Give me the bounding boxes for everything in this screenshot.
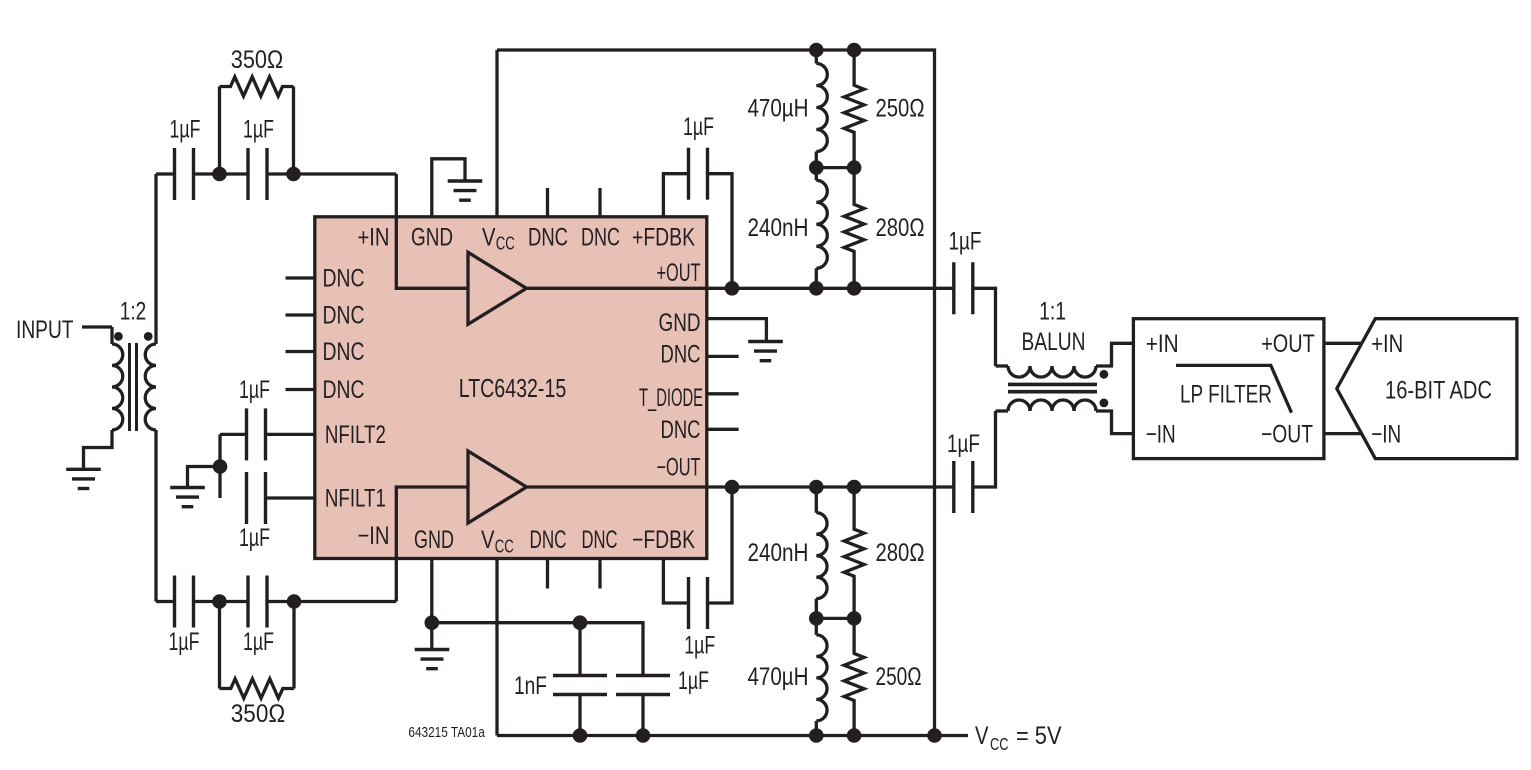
transformer T2 core <box>1008 384 1097 391</box>
pin DNC bottom2 label <box>582 526 618 554</box>
wire +IN internal <box>396 174 468 288</box>
node E junction <box>213 459 228 474</box>
node L3 junction on -OUT <box>809 480 824 495</box>
wire node M down <box>578 623 581 676</box>
wire node C to C4 <box>220 600 249 603</box>
node C12 junction on rail <box>636 728 651 743</box>
wire -FDBK pin <box>663 559 688 604</box>
capacitor C6 label <box>239 524 270 552</box>
block LP FILTER +IN label <box>1146 330 1179 358</box>
pin stub DNC left4 <box>286 388 315 391</box>
capacitor C3 label <box>169 628 200 656</box>
label 1uF at DNC left4 <box>239 376 270 404</box>
node J junction <box>809 611 824 626</box>
wire node E to ground <box>188 467 221 487</box>
svg-text:GND: GND <box>411 224 453 252</box>
svg-text:−OUT: −OUT <box>1261 420 1313 448</box>
pin GND bottom label <box>414 526 454 554</box>
ground at NFILT <box>170 488 205 507</box>
node R4 junction on +OUT <box>847 281 862 296</box>
inductor L1 label 470uH <box>748 95 809 123</box>
svg-text:CC: CC <box>990 734 1009 754</box>
pin GND right label <box>659 309 701 337</box>
svg-text:+IN: +IN <box>358 224 390 252</box>
inductor L3 label 240nH <box>748 539 809 567</box>
resistor R4 280ohm <box>844 168 864 289</box>
ground at transformer <box>66 469 101 488</box>
wire top cap line left <box>156 172 175 175</box>
pin NFILT2 label <box>325 421 386 449</box>
pin DNC left1 label <box>323 265 365 293</box>
svg-text:LP FILTER: LP FILTER <box>1180 381 1272 409</box>
wire GND right pin <box>707 319 767 340</box>
resistor R4 label 280ohm <box>876 214 925 242</box>
svg-text:V: V <box>975 722 989 750</box>
wire C5 to node E <box>220 433 247 436</box>
svg-text:643215 TA01a: 643215 TA01a <box>408 724 485 741</box>
pin stub DNC left1 <box>286 276 315 279</box>
svg-text:LTC6432-15: LTC6432-15 <box>459 373 567 403</box>
block LP FILTER label <box>1180 381 1272 409</box>
capacitor C11 1nF <box>553 676 607 695</box>
svg-text:−FDBK: −FDBK <box>632 526 695 554</box>
svg-text:DNC: DNC <box>661 416 701 444</box>
transformer T2 secondary winding <box>1008 400 1096 411</box>
amplifier A1 triangle <box>468 252 527 324</box>
node M junction <box>573 615 588 630</box>
block LP FILTER box <box>1133 319 1324 459</box>
svg-text:GND: GND <box>414 526 454 554</box>
pin stub DNC bottom1 <box>546 559 549 589</box>
transformer T1 polarity dot secondary <box>144 332 153 341</box>
inductor L1 470uH <box>816 50 827 168</box>
svg-text:1:1: 1:1 <box>1039 298 1066 326</box>
capacitor C11 label 1nF <box>514 672 547 700</box>
node K junction <box>847 611 862 626</box>
wire C3 to node C <box>194 600 220 603</box>
wire +OUT line <box>527 287 955 290</box>
wire -OUT line <box>527 485 955 488</box>
pin +FDBK label <box>632 224 695 252</box>
svg-text:1µF: 1µF <box>169 628 200 656</box>
wire GND to decoupling caps <box>432 623 643 676</box>
node C11 junction on rail <box>573 728 588 743</box>
svg-text:+OUT: +OUT <box>1261 330 1315 358</box>
capacitor C12 1uF <box>616 676 670 695</box>
capacitor C2 label <box>243 115 274 143</box>
svg-text:BALUN: BALUN <box>1022 328 1086 356</box>
node L junction at GND <box>425 615 440 630</box>
svg-text:DNC: DNC <box>528 224 568 252</box>
pin DNC top2 label <box>581 224 620 252</box>
block LP FILTER +OUT label <box>1261 330 1315 358</box>
node D junction <box>287 594 302 609</box>
wire input to transformer primary <box>110 327 113 344</box>
node G junction <box>809 160 824 175</box>
wire C2 to node B <box>267 172 294 175</box>
pin DNC left4 label <box>323 376 365 404</box>
node A junction <box>212 167 227 182</box>
wire INPUT lead <box>82 325 112 328</box>
capacitor C1 label <box>170 115 201 143</box>
node rail junction R3 <box>847 43 862 58</box>
wire T2 primary left <box>996 364 1009 367</box>
pin DNC left3 label <box>323 338 365 366</box>
wire node J to K <box>816 617 854 620</box>
node INPUT label <box>16 316 74 344</box>
node L2 junction on +OUT <box>809 281 824 296</box>
wire NFILT1 pin <box>265 496 315 499</box>
capacitor C7 label <box>683 113 714 141</box>
wire secondary bottom <box>154 430 157 602</box>
inductor L2 label 240nH <box>748 214 809 242</box>
svg-text:1µF: 1µF <box>947 430 980 458</box>
transformer T2 label 1:1 <box>1039 298 1066 326</box>
svg-text:1nF: 1nF <box>514 672 547 700</box>
transformer T1 label 1:2 <box>120 298 147 326</box>
wire node B to +IN <box>294 172 397 175</box>
svg-text:280Ω: 280Ω <box>876 214 925 242</box>
svg-text:350Ω: 350Ω <box>231 700 286 728</box>
svg-text:DNC: DNC <box>323 338 365 366</box>
svg-text:T_DIODE: T_DIODE <box>639 384 703 412</box>
wire GND top pin <box>432 159 465 217</box>
pin stub T_DIODE <box>707 392 739 395</box>
capacitor C10 label <box>684 631 715 659</box>
svg-text:1µF: 1µF <box>684 631 715 659</box>
svg-text:470µH: 470µH <box>748 95 809 123</box>
pin VCC top label <box>482 224 515 254</box>
amplifier A2 triangle <box>468 451 527 523</box>
capacitor C8 1uF +OUT <box>954 262 973 314</box>
capacitor C2 1uF <box>248 148 267 200</box>
capacitor C5 1uF NFILT2 <box>247 408 266 460</box>
svg-text:−OUT: −OUT <box>657 453 701 481</box>
block ADC +IN label <box>1371 330 1403 358</box>
svg-text:NFILT1: NFILT1 <box>325 484 386 512</box>
svg-text:−IN: −IN <box>358 522 390 550</box>
transformer T1 polarity dot primary <box>114 332 123 341</box>
block LP FILTER -OUT label <box>1261 420 1313 448</box>
capacitor C1 1uF <box>175 148 194 200</box>
ground at right GND pin <box>748 342 783 361</box>
pin GND top label <box>411 224 453 252</box>
transformer T1 core <box>130 343 137 431</box>
wire node D to -IN <box>294 600 396 603</box>
svg-text:1µF: 1µF <box>239 524 270 552</box>
pin -IN label <box>358 522 390 550</box>
node H junction <box>847 160 862 175</box>
pin NFILT1 label <box>325 484 386 512</box>
transformer T2 label BALUN <box>1022 328 1086 356</box>
svg-text:CC: CC <box>496 234 515 254</box>
op-amp U1 label <box>459 373 567 403</box>
node L4 junction on rail <box>809 728 824 743</box>
node B junction <box>286 167 301 182</box>
svg-text:CC: CC <box>495 537 514 557</box>
capacitor C9 1uF -OUT <box>954 461 973 513</box>
node R5 junction on -OUT <box>847 480 862 495</box>
resistor R6 250ohm <box>844 618 864 735</box>
block 16-BIT ADC outline <box>1337 319 1517 459</box>
resistor R3 label 250ohm <box>876 95 925 123</box>
wire C10 to -OUT <box>708 487 733 603</box>
wire -IN internal <box>396 487 468 602</box>
resistor R3 250ohm <box>844 50 864 168</box>
wire node G to H <box>816 166 854 169</box>
capacitor C8 label <box>949 228 982 256</box>
wire C12 to rail <box>641 695 644 736</box>
svg-text:DNC: DNC <box>323 376 365 404</box>
wire LP +OUT to ADC <box>1324 342 1361 345</box>
capacitor C12 label <box>678 667 709 695</box>
wire NFILT2 pin <box>265 433 315 436</box>
resistor R1 350ohm loop <box>220 77 294 174</box>
node I junction on -OUT <box>725 480 740 495</box>
wire T2 secondary right <box>1096 411 1133 434</box>
wire bottom cap line left <box>156 600 175 603</box>
op-amp U1 LTC6432-15 body <box>315 217 707 559</box>
node N junction on rail <box>927 728 942 743</box>
inductor L3 240nH <box>816 487 827 618</box>
pin -FDBK label <box>632 526 695 554</box>
wire primary to ground <box>84 430 113 468</box>
pin DNC top1 label <box>528 224 568 252</box>
pin stub DNC right1 <box>707 355 739 358</box>
svg-text:1µF: 1µF <box>170 115 201 143</box>
capacitor C3 1uF <box>175 576 194 628</box>
ground at top GND pin <box>448 181 483 200</box>
wire node A to C2 <box>220 172 249 175</box>
svg-text:1µF: 1µF <box>239 376 270 404</box>
transformer T2 polarity dot secondary <box>1100 399 1109 408</box>
wire NFILT vertical <box>218 434 221 498</box>
pin stub DNC top1 <box>546 188 549 217</box>
svg-text:1µF: 1µF <box>683 113 714 141</box>
transformer T1 primary winding <box>112 344 123 430</box>
svg-text:GND: GND <box>659 309 701 337</box>
resistor R2 label 350ohm <box>231 700 286 728</box>
svg-text:470µH: 470µH <box>748 663 809 691</box>
svg-text:1µF: 1µF <box>243 628 274 656</box>
svg-text:250Ω: 250Ω <box>876 95 925 123</box>
svg-text:NFILT2: NFILT2 <box>325 421 386 449</box>
svg-text:+IN: +IN <box>1146 330 1179 358</box>
svg-text:+FDBK: +FDBK <box>632 224 695 252</box>
svg-text:DNC: DNC <box>581 224 620 252</box>
label VCC = 5V <box>975 722 1062 754</box>
svg-text:+IN: +IN <box>1371 330 1403 358</box>
capacitor C10 1uF -FDBK <box>689 577 708 629</box>
wire C4 to node D <box>267 600 294 603</box>
svg-text:−IN: −IN <box>1371 420 1401 448</box>
node rail junction L1 <box>809 43 824 58</box>
node F junction on +OUT <box>725 281 740 296</box>
wire T2 primary right <box>1096 343 1133 366</box>
resistor R5 280ohm <box>844 487 864 618</box>
wire +FDBK pin <box>663 174 688 217</box>
pin stub DNC right2 <box>707 428 739 431</box>
svg-text:1µF: 1µF <box>678 667 709 695</box>
svg-text:240nH: 240nH <box>748 214 809 242</box>
svg-text:DNC: DNC <box>323 302 365 330</box>
wire VCC top pin <box>495 50 498 217</box>
inductor L4 label 470uH <box>748 663 809 691</box>
resistor R6 label 250ohm <box>876 663 922 691</box>
svg-text:DNC: DNC <box>530 526 567 554</box>
label 643215 TA01a <box>408 724 485 741</box>
svg-text:1:2: 1:2 <box>120 298 147 326</box>
pin stub DNC left3 <box>286 350 315 353</box>
wire LP -OUT to ADC <box>1324 432 1361 435</box>
wire VCC top rail <box>497 50 935 736</box>
inductor L4 470uH <box>816 618 827 735</box>
pin stub DNC left2 <box>286 313 315 316</box>
wire VCC bottom rail <box>497 734 968 737</box>
pin DNC bottom1 label <box>530 526 567 554</box>
wire C9 to balun <box>973 411 996 487</box>
capacitor C6 1uF NFILT1 <box>247 472 266 524</box>
pin T_DIODE label <box>639 384 703 412</box>
svg-text:−IN: −IN <box>1146 420 1176 448</box>
svg-text:INPUT: INPUT <box>16 316 74 344</box>
capacitor C4 label <box>243 628 274 656</box>
svg-text:V: V <box>481 526 495 554</box>
capacitor C7 1uF +FDBK <box>689 148 708 200</box>
wire C11 to rail <box>578 695 581 736</box>
svg-text:250Ω: 250Ω <box>876 663 922 691</box>
svg-text:= 5V: = 5V <box>1016 722 1062 750</box>
transformer T2 primary winding <box>1008 366 1096 377</box>
node C junction <box>212 594 227 609</box>
svg-text:1µF: 1µF <box>949 228 982 256</box>
pin DNC right2 label <box>661 416 701 444</box>
resistor R1 label 350ohm <box>231 46 284 74</box>
pin -OUT label <box>657 453 701 481</box>
block ADC -IN label <box>1371 420 1401 448</box>
wire T2 secondary left <box>996 409 1009 412</box>
resistor R5 label 280ohm <box>876 539 925 567</box>
wire GND bottom pin <box>430 559 433 649</box>
svg-text:350Ω: 350Ω <box>231 46 284 74</box>
block LP FILTER -IN label <box>1146 420 1176 448</box>
inductor L2 240nH <box>816 168 827 289</box>
svg-text:V: V <box>482 224 496 252</box>
pin +IN label <box>358 224 390 252</box>
svg-text:240nH: 240nH <box>748 539 809 567</box>
capacitor C4 1uF <box>248 576 267 628</box>
capacitor C9 label <box>947 430 980 458</box>
block LP FILTER response curve <box>1176 365 1292 412</box>
svg-text:DNC: DNC <box>323 265 365 293</box>
wire C7 to +OUT <box>708 174 733 289</box>
pin DNC left2 label <box>323 302 365 330</box>
wire secondary top <box>154 174 157 344</box>
pin stub DNC bottom2 <box>598 559 601 589</box>
wire C8 to balun <box>973 288 996 366</box>
pin VCC bottom label <box>481 526 514 557</box>
pin +OUT label <box>657 259 701 287</box>
svg-text:DNC: DNC <box>661 341 701 369</box>
ground at bottom GND pin <box>415 650 450 669</box>
block ADC label 16-BIT ADC <box>1385 377 1492 405</box>
resistor R2 350ohm loop <box>220 602 295 699</box>
wire VCC bottom pin <box>495 559 498 736</box>
svg-text:+OUT: +OUT <box>657 259 701 287</box>
svg-text:1µF: 1µF <box>243 115 274 143</box>
pin DNC right1 label <box>661 341 701 369</box>
svg-text:280Ω: 280Ω <box>876 539 925 567</box>
transformer T2 polarity dot primary <box>1100 370 1109 379</box>
wire C1 to node A <box>194 172 220 175</box>
pin stub DNC top2 <box>598 188 601 217</box>
transformer T1 secondary winding <box>145 344 156 430</box>
svg-text:DNC: DNC <box>582 526 618 554</box>
svg-text:16-BIT ADC: 16-BIT ADC <box>1385 377 1492 405</box>
node R6 junction on rail <box>847 728 862 743</box>
